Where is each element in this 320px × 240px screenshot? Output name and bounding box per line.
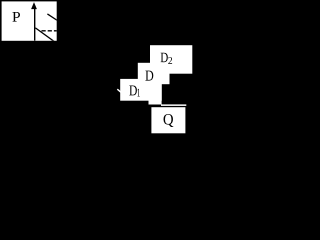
D label box: [138, 63, 170, 84]
D1 leader tick: [117, 89, 121, 92]
P axis label: [12, 12, 20, 22]
D2 label box: [150, 45, 192, 73]
chart box (price-quantity diagram): [2, 1, 57, 40]
D text: D: [145, 71, 153, 81]
D2 text: D: [161, 53, 168, 63]
upper demand curve segment (D2): [47, 14, 58, 21]
y-axis arrowhead: [31, 2, 37, 9]
D1 text: subscript 1: [137, 89, 140, 97]
Q text: [164, 114, 174, 127]
y-axis: [34, 8, 36, 41]
axis line segment right of D1 box: [161, 104, 186, 106]
thick axis stub under D1 box: [149, 101, 162, 105]
lower demand curve segment (D): [35, 28, 55, 42]
dashed price line: [42, 30, 58, 32]
D1 text: D: [129, 86, 137, 96]
Q label box: [151, 107, 185, 133]
D2 text: subscript 2: [168, 57, 172, 64]
D1 label box: [120, 79, 162, 101]
